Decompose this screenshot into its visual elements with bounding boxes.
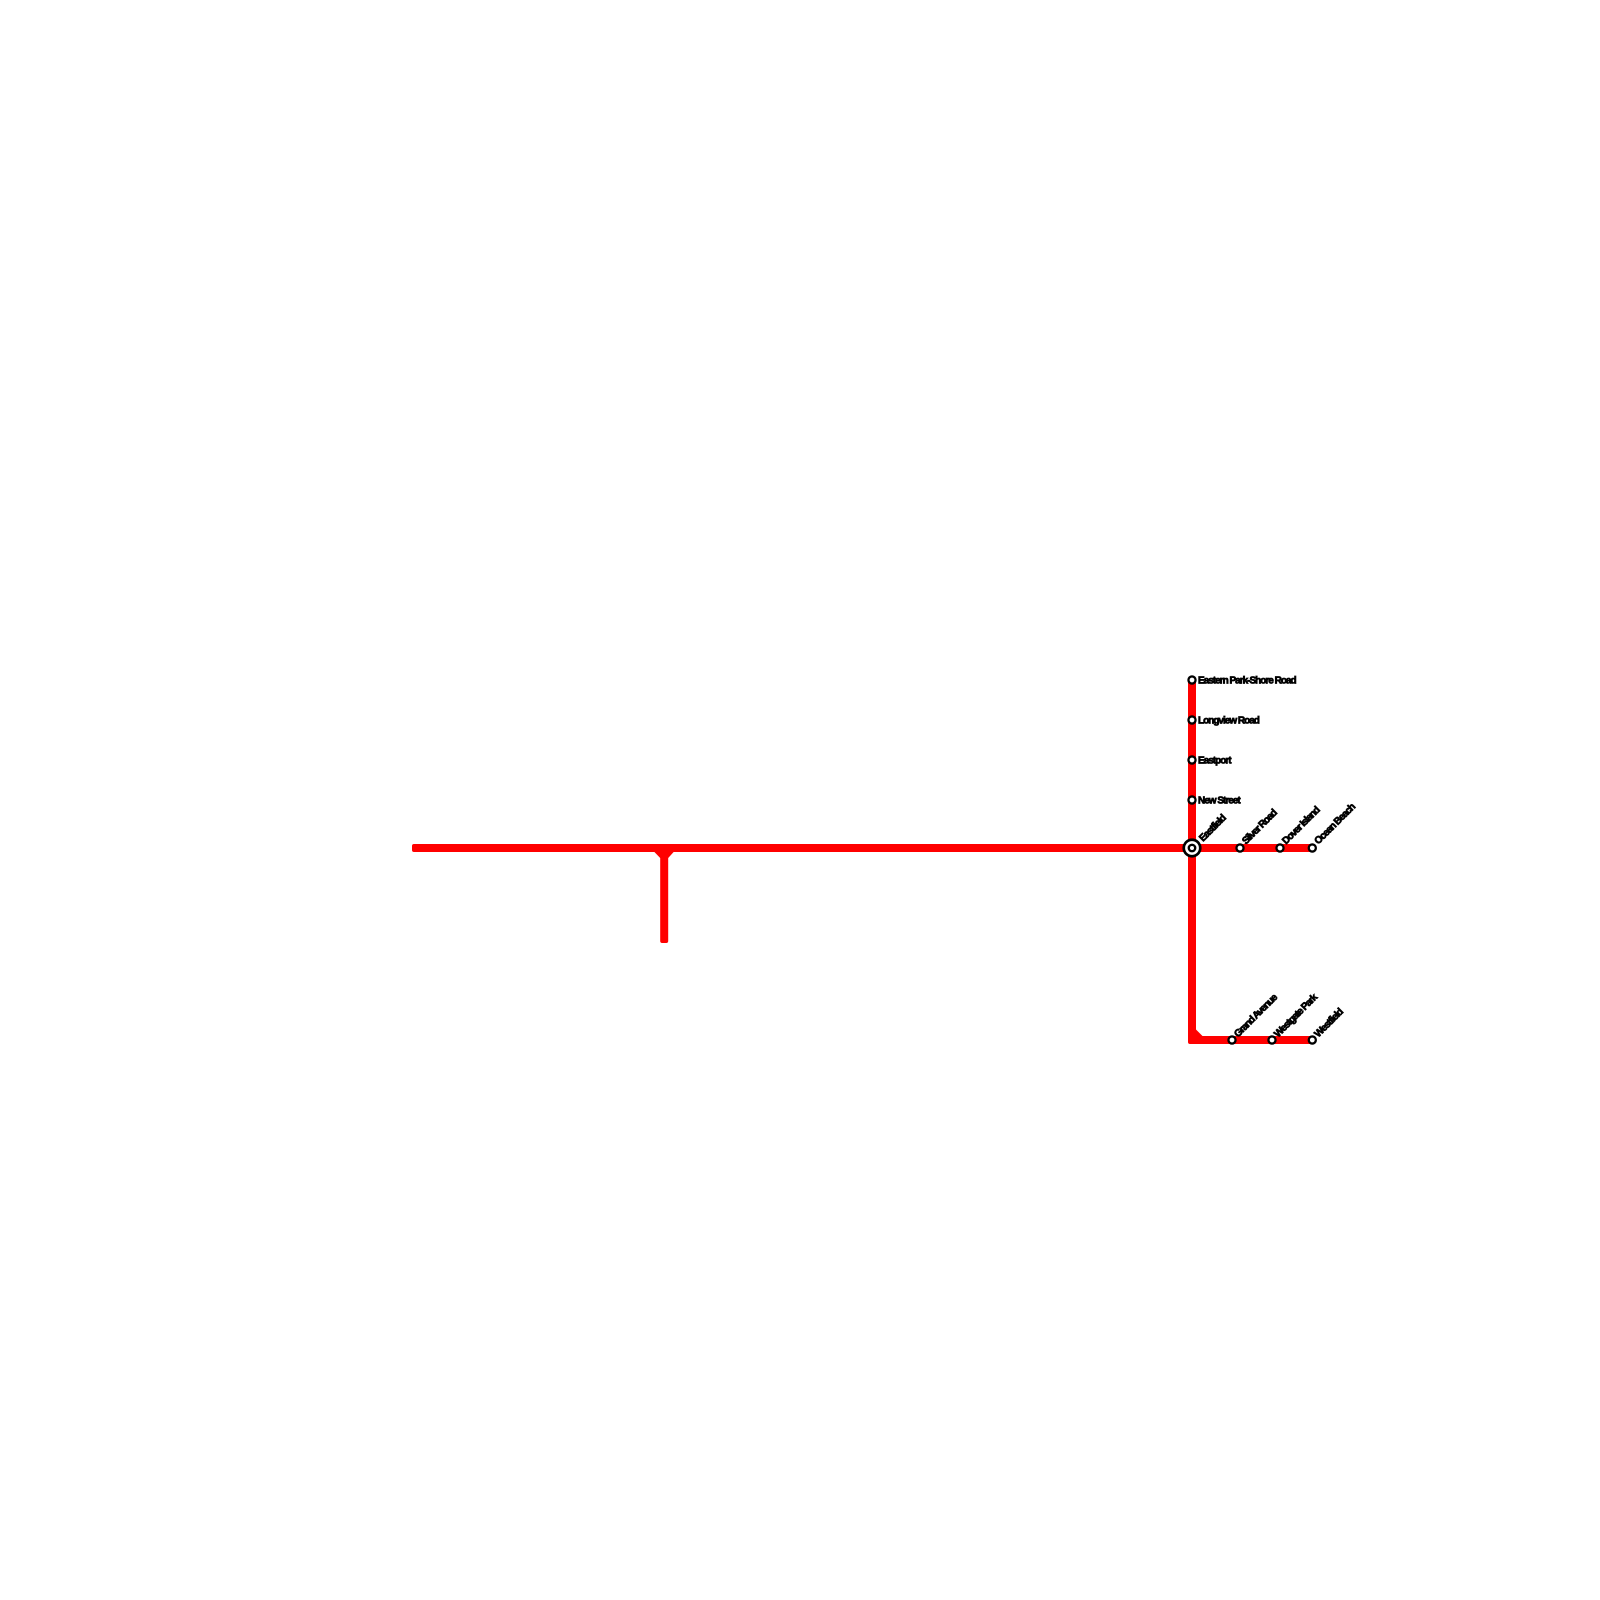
svg-text:Ocean Beach: Ocean Beach xyxy=(1313,801,1358,846)
svg-text:Silver Road: Silver Road xyxy=(1240,807,1280,847)
svg-text:Longview Road: Longview Road xyxy=(1198,715,1260,726)
wire: main east-west red line xyxy=(412,844,1313,852)
wire: south stub branch xyxy=(660,845,668,943)
station Silver Road xyxy=(1236,844,1243,851)
svg-text:Eastfield: Eastfield xyxy=(1197,813,1229,845)
svg-text:New Street: New Street xyxy=(1198,795,1241,806)
station Westgate Park xyxy=(1268,1036,1275,1043)
station Westfield xyxy=(1309,1036,1316,1043)
junction fillet flare of stub xyxy=(654,851,674,858)
station Longview Road xyxy=(1188,716,1195,723)
station Ocean Beach xyxy=(1309,844,1316,851)
interchange Eastfield xyxy=(1182,838,1201,857)
station Eastern Park-Shore Road xyxy=(1188,676,1195,683)
svg-text:Eastport: Eastport xyxy=(1198,755,1232,766)
station Grand Avenue xyxy=(1228,1036,1235,1043)
svg-text:Eastern Park-Shore Road: Eastern Park-Shore Road xyxy=(1198,675,1296,686)
station Dover Island xyxy=(1276,844,1283,851)
wire: east branch vertical line and south loop to bottom branch xyxy=(1188,680,1313,1044)
station New Street xyxy=(1188,796,1195,803)
svg-text:Westfield: Westfield xyxy=(1313,1006,1346,1039)
station Eastport xyxy=(1188,756,1195,763)
